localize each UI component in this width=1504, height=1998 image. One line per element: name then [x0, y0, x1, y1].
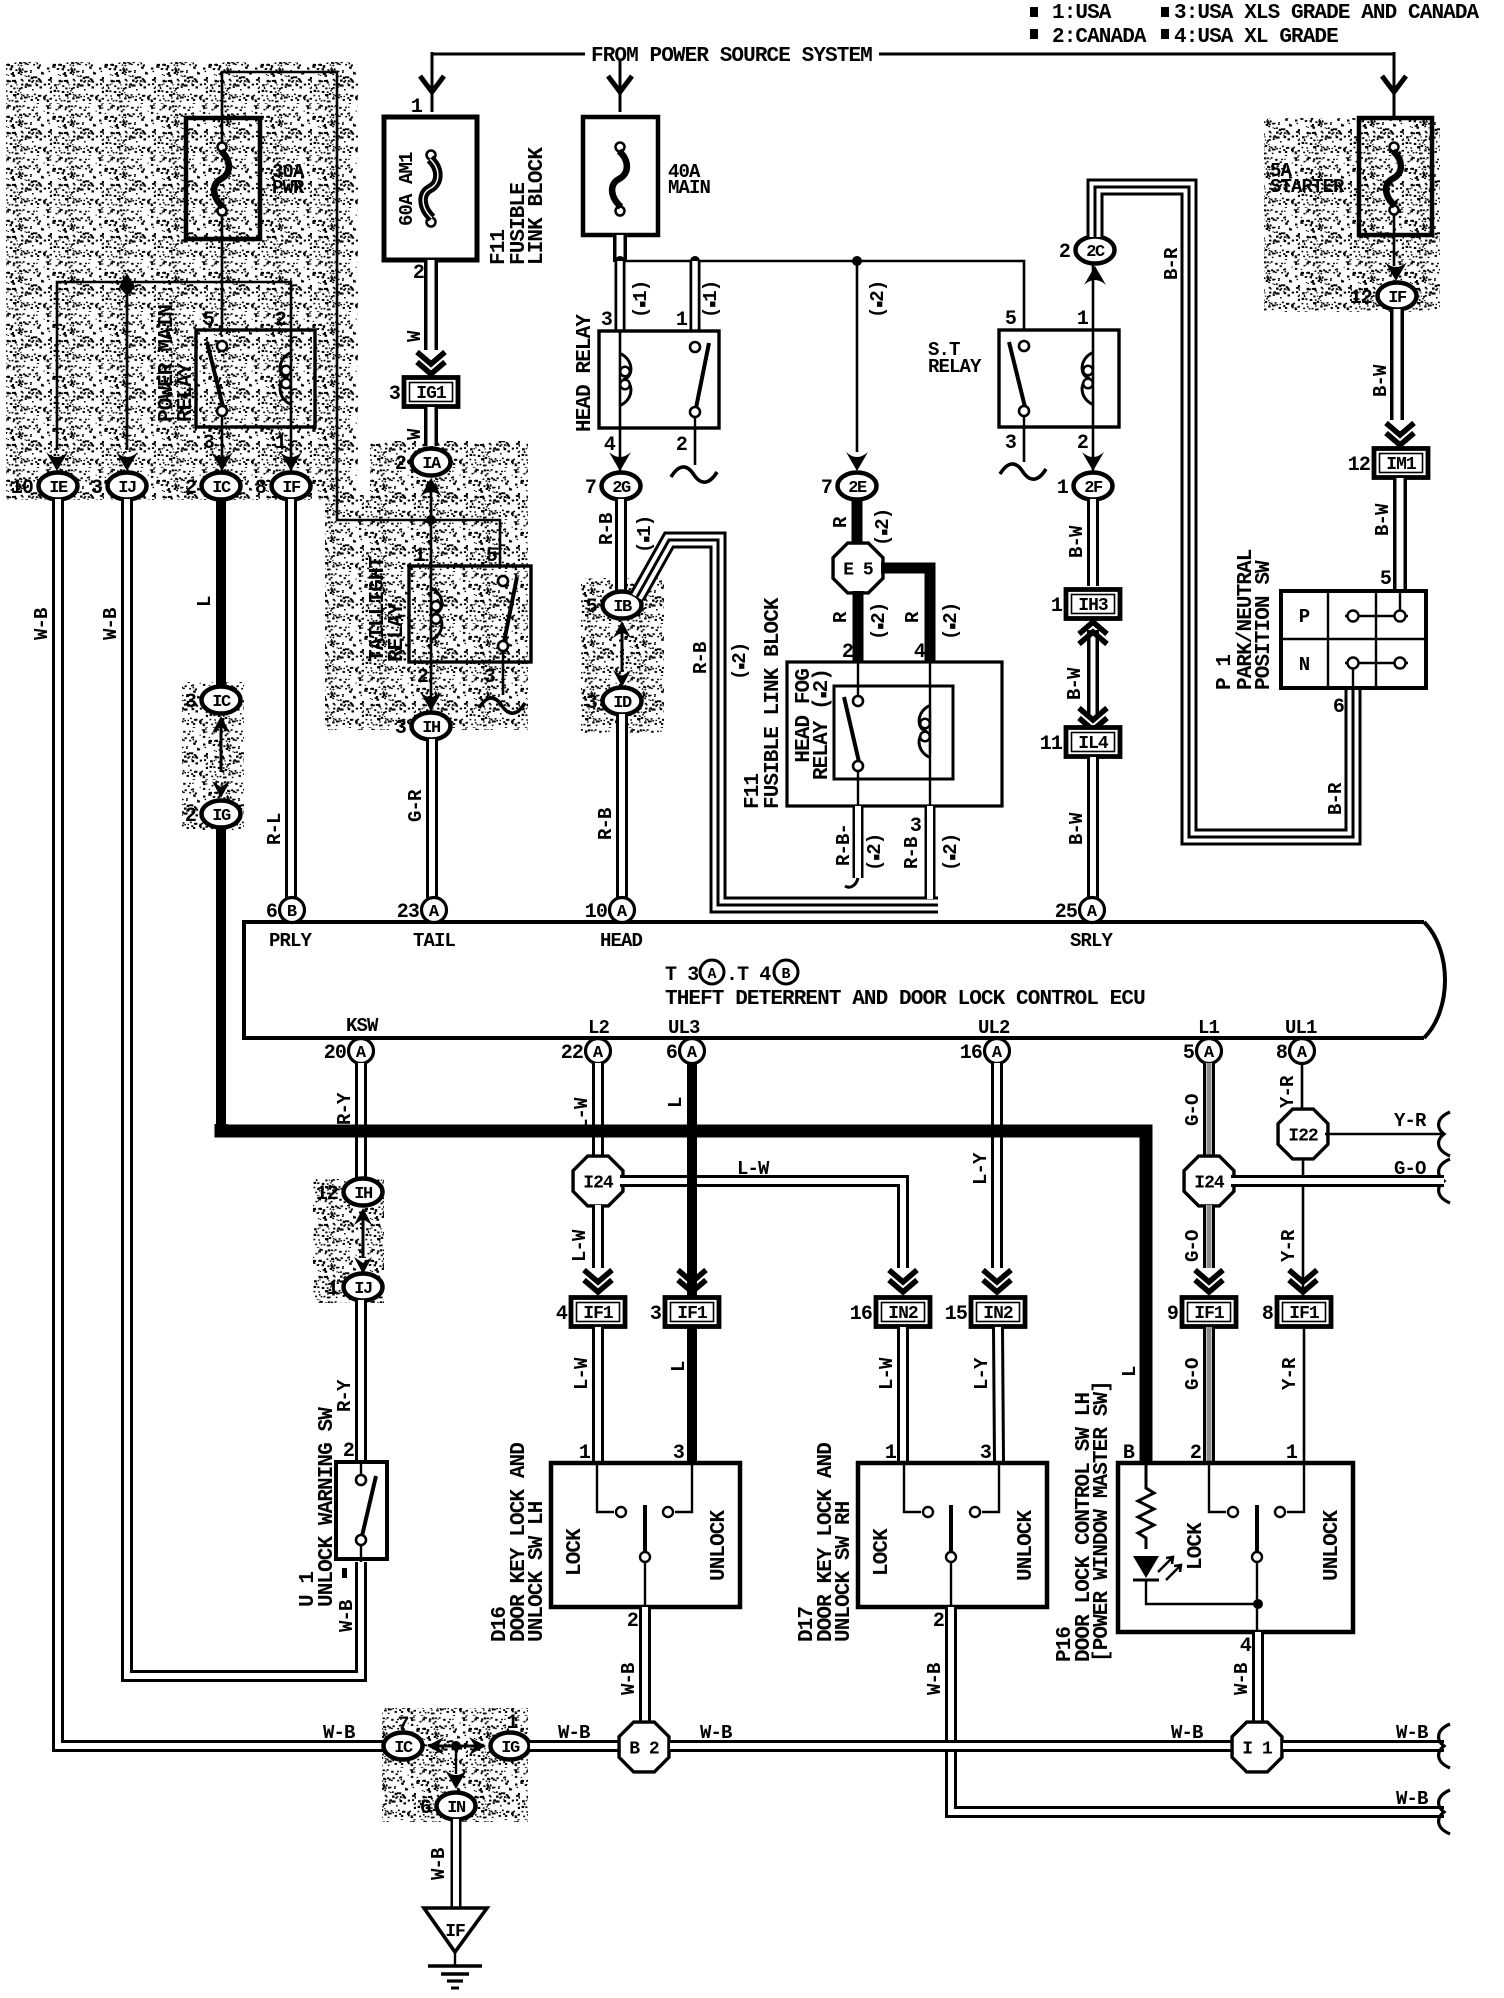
svg-text:PRLY: PRLY	[269, 930, 313, 952]
connector 11 IL4	[1066, 728, 1120, 757]
svg-text:IF1: IF1	[583, 1304, 614, 1324]
junction dots	[615, 256, 625, 266]
pair arrows IB-ID	[613, 621, 631, 638]
pair arrows IC-IG	[212, 716, 230, 733]
head relay coil	[619, 331, 622, 428]
svg-text:RELAY: RELAY	[175, 362, 198, 422]
svg-text:3: 3	[203, 432, 214, 455]
svg-text:Y-R: Y-R	[1278, 1229, 1300, 1262]
svg-text:1: 1	[1077, 308, 1089, 331]
head fog relay coil	[929, 663, 931, 709]
arrow into IH	[420, 692, 442, 711]
head relay switch	[690, 342, 700, 352]
svg-text:2: 2	[417, 666, 428, 689]
pin 25 A SRLY	[1080, 898, 1105, 923]
wire R E5 to head fog pin 4	[881, 568, 930, 663]
head fog relay inner box	[834, 686, 953, 779]
legend marker 3	[1161, 7, 1169, 17]
connector 7 IC ground pair	[384, 1733, 423, 1760]
shaded region connector IH-IJ pair	[313, 1179, 384, 1303]
wire G-O horizontal to right edge	[1231, 1175, 1444, 1187]
svg-text:B-W: B-W	[1066, 525, 1088, 558]
svg-text:16: 16	[850, 1303, 872, 1326]
svg-text:STARTER: STARTER	[1270, 176, 1345, 198]
arrow into 2F	[1082, 452, 1104, 471]
connector 7 2E	[838, 473, 877, 500]
svg-text:(■1): (■1)	[630, 281, 652, 318]
pin 8 A UL1	[1290, 1039, 1315, 1064]
svg-text:B: B	[781, 966, 790, 983]
ground IF triangle	[424, 1908, 487, 1952]
svg-text:1: 1	[1057, 477, 1069, 500]
svg-text:6: 6	[420, 1797, 431, 1820]
head fog relay F11 outer box	[787, 662, 1002, 806]
svg-text:SRLY: SRLY	[1070, 930, 1114, 952]
svg-text:IN2: IN2	[983, 1304, 1013, 1324]
wire L-W IF1 to D16 pin 1	[592, 1327, 604, 1463]
svg-text:2: 2	[1077, 432, 1088, 455]
wire G-O I24 to IF1	[1203, 1205, 1215, 1268]
wire L IC to IC3	[216, 499, 226, 688]
wire st pin 2 to 2F	[1092, 427, 1095, 472]
wire L-W IN2 to D17 pin 1	[897, 1327, 909, 1463]
svg-text:IG1: IG1	[416, 384, 447, 404]
arrow into 2G	[609, 452, 631, 471]
svg-text:5: 5	[203, 309, 214, 332]
wire B-W IM1 to P1 pin 5	[1393, 478, 1407, 592]
svg-text:IH: IH	[422, 719, 441, 738]
wire 30A PWR top loop to taillight relay	[222, 72, 500, 566]
svg-text:Y-R: Y-R	[1277, 1075, 1299, 1108]
svg-text:IC: IC	[212, 479, 231, 498]
P16 contacts	[1209, 1465, 1226, 1512]
svg-text:1:USA: 1:USA	[1052, 2, 1112, 25]
svg-text:.T 4: .T 4	[726, 964, 771, 987]
svg-text:W-B: W-B	[700, 1722, 732, 1744]
svg-text:LOCK: LOCK	[564, 1528, 587, 1576]
svg-text:22: 22	[561, 1042, 583, 1065]
svg-text:2: 2	[343, 1440, 354, 1463]
svg-text:3: 3	[910, 815, 921, 838]
power main relay switch	[217, 341, 227, 351]
svg-text:RELAY: RELAY	[928, 356, 982, 378]
switch U1 unlock warning sw	[336, 1462, 387, 1559]
switch P1 park/neutral position sw	[1281, 591, 1426, 688]
svg-text:L1: L1	[1198, 1017, 1220, 1039]
connector 2 IG	[202, 801, 241, 828]
arrow into IF	[1385, 262, 1407, 281]
wire Y-R horizontal to right edge	[1325, 1133, 1444, 1136]
svg-text:L-Y: L-Y	[971, 1357, 993, 1390]
svg-text:B-W: B-W	[1370, 364, 1392, 397]
svg-text:2E: 2E	[848, 479, 867, 498]
connector I 1	[1232, 1722, 1282, 1772]
shaded region ground connector pair	[382, 1708, 528, 1822]
svg-text:IN: IN	[447, 1799, 466, 1818]
wire W-B bus B2 to I1	[670, 1740, 1232, 1752]
svg-text:HEAD RELAY: HEAD RELAY	[574, 314, 597, 432]
connector 1 2F	[1074, 473, 1113, 500]
svg-text:2: 2	[627, 1610, 638, 1633]
pin 6 B PRLY	[280, 898, 305, 923]
svg-text:HEAD: HEAD	[600, 930, 643, 952]
svg-text:4: 4	[604, 434, 616, 457]
wire W-B IE to ground bus	[58, 499, 384, 1746]
svg-text:UNLOCK: UNLOCK	[708, 1509, 731, 1581]
svg-text:B 2: B 2	[629, 1740, 659, 1760]
svg-text:(■2): (■2)	[868, 603, 890, 640]
svg-text:(■1): (■1)	[700, 281, 722, 318]
legend marker 1	[1030, 7, 1038, 17]
D17 pole	[949, 1505, 953, 1552]
connector 16 IN2	[876, 1298, 930, 1327]
wire L IG down to corner	[216, 827, 226, 1131]
svg-text:B-W: B-W	[1064, 667, 1086, 700]
svg-text:1: 1	[327, 1278, 339, 1301]
svg-text:W: W	[404, 428, 426, 440]
svg-text:60A AM1: 60A AM1	[396, 152, 418, 226]
connector 12 IM1	[1374, 449, 1428, 478]
svg-text:IF1: IF1	[1194, 1304, 1225, 1324]
svg-text:G-O: G-O	[1182, 1230, 1204, 1262]
switch D17 door key lock and unlock sw RH	[858, 1463, 1047, 1607]
svg-text:A: A	[617, 903, 628, 922]
wire pin3 to IC	[221, 427, 224, 472]
wire W-B IN to ground	[451, 1819, 462, 1908]
svg-text:12: 12	[1350, 287, 1372, 310]
pin 10 A HEAD	[610, 898, 635, 923]
pair arrows IC-IG horizontal	[427, 1737, 444, 1755]
connector 3 IF1	[665, 1298, 719, 1327]
junction dot taillight feed	[426, 515, 436, 525]
bus wire to ST relay	[620, 261, 1024, 332]
wire Y-R UL1 to I22	[1301, 1063, 1304, 1110]
relay TAILLIGHT RELAY	[409, 566, 531, 662]
squiggle taillight pin 3	[479, 698, 525, 713]
wire feed to 60A AM1	[432, 53, 585, 56]
shaded region taillight relay area	[370, 441, 528, 501]
ground symbol	[454, 1952, 456, 1966]
svg-text:L: L	[1119, 1366, 1141, 1377]
double arrow IH3 to IL4	[1087, 630, 1099, 716]
P16 resistor	[1138, 1463, 1154, 1549]
svg-text:B-W: B-W	[1066, 812, 1088, 845]
svg-text:A: A	[593, 1044, 604, 1063]
pin 22 A L2	[586, 1039, 611, 1064]
svg-text:L2: L2	[588, 1017, 610, 1039]
shaded region 5A starter area	[1264, 118, 1440, 312]
arrow into IF1	[678, 1280, 706, 1292]
svg-text:A: A	[356, 1044, 367, 1063]
wire pin 4 to 2G	[619, 428, 622, 472]
fuse 30A PWR	[186, 118, 260, 239]
svg-text:ID: ID	[613, 694, 632, 713]
unlock warning switch blade	[360, 1463, 362, 1476]
svg-text:6: 6	[266, 901, 277, 924]
svg-text:2:CANADA: 2:CANADA	[1052, 26, 1147, 49]
svg-text:Y-R: Y-R	[1279, 1357, 1301, 1390]
svg-text:5: 5	[1005, 308, 1016, 331]
wire bus to head relay pin 1	[690, 261, 701, 332]
wire R 2E to E5	[852, 499, 863, 545]
svg-text:UNLOCK SW RH: UNLOCK SW RH	[833, 1501, 856, 1642]
svg-text:2C: 2C	[1086, 243, 1105, 262]
svg-text:6: 6	[1333, 696, 1344, 719]
connector 2 IA	[412, 449, 451, 476]
svg-text:5: 5	[1380, 568, 1391, 591]
svg-text:POSITION SW: POSITION SW	[1253, 560, 1276, 690]
svg-text:I24: I24	[1194, 1174, 1225, 1194]
svg-text:IA: IA	[422, 455, 442, 474]
connector 5 IB	[603, 592, 642, 619]
svg-text:2: 2	[185, 477, 196, 500]
wire R-Y IJ to unlock warning sw	[355, 1300, 367, 1463]
svg-text:B: B	[287, 903, 297, 922]
svg-text:8: 8	[1276, 1042, 1287, 1065]
wire L-Y IN2 to D17 pin 3	[998, 1327, 999, 1463]
pin 20 A KSW	[349, 1039, 374, 1064]
svg-text:7: 7	[585, 477, 596, 500]
fuse 5A STARTER	[1359, 118, 1432, 235]
svg-text:P: P	[1299, 606, 1310, 628]
svg-text:B-W: B-W	[1372, 503, 1394, 536]
fuse 40A MAIN	[583, 117, 658, 235]
connector 1 IG ground pair	[491, 1733, 530, 1760]
shaded region connector IC-IG pair	[182, 682, 244, 830]
svg-text:IN2: IN2	[888, 1304, 918, 1324]
svg-text:12: 12	[316, 1183, 338, 1206]
svg-text:2: 2	[676, 434, 687, 457]
head fog relay switch	[857, 663, 859, 697]
svg-text:Y-R: Y-R	[1394, 1110, 1427, 1132]
svg-text:R-B: R-B	[690, 642, 712, 674]
svg-text:W-B: W-B	[323, 1722, 355, 1744]
svg-text:UL1: UL1	[1285, 1017, 1317, 1039]
svg-text:L-W: L-W	[737, 1158, 770, 1180]
wire G-O horizontal crossing over Y-R	[1231, 1175, 1444, 1187]
wire IA to taillight relay pin 1	[430, 486, 433, 566]
svg-text:R-B-: R-B-	[833, 824, 855, 866]
svg-text:PWR: PWR	[272, 177, 305, 199]
svg-text:IG: IG	[501, 1739, 520, 1758]
wire L UL3 to IF1	[687, 1063, 697, 1297]
taillight relay coil	[430, 566, 433, 662]
wire fuse to power main relay pin 5	[221, 216, 224, 332]
arrow into IM1	[1386, 433, 1414, 445]
svg-text:L: L	[194, 596, 216, 607]
connector 3 IH	[412, 713, 451, 740]
svg-text:P 1: P 1	[1214, 655, 1237, 690]
wire W-B P16 pin 4 to I1	[1252, 1632, 1264, 1723]
svg-text:3: 3	[601, 309, 612, 332]
svg-text:UNLOCK SW LH: UNLOCK SW LH	[526, 1501, 549, 1642]
svg-text:1: 1	[411, 96, 423, 119]
svg-text:3: 3	[91, 477, 102, 500]
connector 7 2G	[602, 473, 641, 500]
svg-text:1: 1	[414, 545, 426, 568]
connector 1 IH3	[1066, 590, 1120, 619]
wire Y-R IF1 to P16 pin 1	[1303, 1327, 1306, 1463]
wire MAIN to bus	[613, 235, 627, 262]
svg-text:MAIN: MAIN	[668, 177, 711, 199]
arrow into IJ	[116, 452, 138, 471]
svg-text:25: 25	[1055, 901, 1077, 924]
wire G-R IH to ECU TAIL	[426, 739, 438, 898]
svg-text:UL2: UL2	[978, 1017, 1010, 1039]
svg-text:11: 11	[1040, 733, 1063, 756]
svg-text:(■2): (■2)	[940, 603, 962, 640]
arrow into IN2	[889, 1280, 917, 1292]
connector 12 IH	[344, 1179, 383, 1206]
svg-text:2: 2	[933, 1610, 944, 1633]
wire bus to head relay pin 3	[615, 261, 626, 332]
wire Y-R I22 to IF1	[1302, 1158, 1305, 1297]
relay POWER MAIN RELAY	[196, 330, 315, 427]
svg-text:L-W: L-W	[876, 1357, 898, 1390]
wire L-W I24 to IF1	[592, 1205, 604, 1268]
svg-text:10: 10	[585, 901, 607, 924]
connector 6 IN	[437, 1793, 476, 1820]
svg-text:IC: IC	[394, 1739, 413, 1758]
continuation curly G-O	[1439, 1159, 1450, 1203]
wire pin 2 to IH	[430, 662, 433, 712]
svg-text:1: 1	[1051, 595, 1063, 618]
svg-text:[POWER WINDOW MASTER SW]: [POWER WINDOW MASTER SW]	[1091, 1381, 1114, 1662]
wire L IF1 to D16 pin 3	[687, 1327, 697, 1463]
arrow into IC	[211, 452, 233, 471]
svg-text:7: 7	[397, 1714, 408, 1737]
wire G-O L1 to I24	[1203, 1063, 1215, 1157]
svg-text:A: A	[992, 1044, 1003, 1063]
N contact	[1352, 664, 1354, 688]
svg-text:23: 23	[397, 901, 419, 924]
svg-text:2: 2	[185, 805, 196, 828]
svg-text:2: 2	[395, 453, 406, 476]
connector E 5	[833, 543, 883, 593]
arrow into IG1	[417, 362, 445, 374]
svg-text:IJ: IJ	[118, 479, 136, 498]
connector 3 IG1	[404, 378, 458, 407]
svg-text:IM1: IM1	[1386, 455, 1417, 475]
arrow into IF1	[584, 1280, 612, 1292]
svg-text:THEFT DETERRENT AND DOOR LOCK: THEFT DETERRENT AND DOOR LOCK CONTROL EC…	[665, 988, 1145, 1011]
svg-text:R-B: R-B	[596, 513, 618, 545]
wire B-W IL4 to ECU SRLY	[1087, 757, 1099, 898]
wire B-R bundle 2C to P1 pin 6	[1095, 187, 1353, 837]
svg-text:(■1): (■1)	[634, 516, 656, 553]
connector 2 2C	[1076, 237, 1115, 264]
wire W-B D17 pin 2 to lower bus	[951, 1607, 1444, 1812]
svg-text:W-B: W-B	[1171, 1722, 1203, 1744]
switch P16 door lock control sw LH power window master sw	[1118, 1463, 1353, 1632]
svg-text:UNLOCK: UNLOCK	[1015, 1509, 1038, 1581]
connector B 2	[619, 1722, 669, 1772]
svg-text:3: 3	[185, 691, 196, 714]
fuse 60A AM1 F11 fusible link block	[384, 117, 477, 260]
taillight relay switch	[498, 576, 508, 586]
arrow into IF	[280, 452, 302, 471]
continuation curly Y-R	[1439, 1112, 1450, 1156]
svg-text:(■2): (■2)	[872, 509, 894, 546]
svg-text:4:USA XL GRADE: 4:USA XL GRADE	[1174, 26, 1338, 49]
switch D16 door key lock and unlock sw LH	[551, 1463, 740, 1607]
svg-text:R-L: R-L	[264, 813, 286, 845]
wire branch to IJ	[126, 282, 129, 450]
connector 1 IJ	[344, 1274, 383, 1301]
connector 2 IC	[202, 473, 241, 500]
svg-text:3: 3	[484, 666, 495, 689]
svg-text:3:USA XLS GRADE AND CANADA: 3:USA XLS GRADE AND CANADA	[1174, 2, 1480, 25]
svg-text:L-W: L-W	[571, 1357, 593, 1390]
wire W-B D16 pin 2 to B2	[639, 1607, 651, 1722]
connector 3 IJ	[108, 473, 147, 500]
svg-text:W-B: W-B	[100, 608, 122, 640]
svg-text:L-Y: L-Y	[970, 1152, 992, 1185]
wire bus to 2E	[856, 261, 859, 452]
wire relay feed to IE IJ	[57, 282, 291, 450]
P16 pole	[1255, 1505, 1259, 1552]
st relay switch	[1019, 341, 1029, 351]
svg-text:L-W: L-W	[569, 1229, 591, 1262]
svg-text:R-B: R-B	[901, 837, 923, 869]
connector 4 IF1	[571, 1298, 625, 1327]
wire R-B bundle IB to head fog relay	[637, 540, 938, 905]
svg-text:RELAY: RELAY	[386, 602, 409, 662]
svg-text:TAIL: TAIL	[413, 930, 456, 952]
arrow into 2C from below	[1084, 266, 1106, 285]
power main relay coil	[290, 330, 293, 427]
svg-text:R-Y: R-Y	[334, 1092, 356, 1125]
svg-text:20: 20	[324, 1042, 346, 1065]
svg-text:IH3: IH3	[1078, 596, 1108, 616]
svg-text:2: 2	[275, 309, 286, 332]
svg-text:9: 9	[1167, 1303, 1178, 1326]
arrow into IN	[455, 1746, 457, 1774]
connector I22	[1278, 1109, 1328, 1159]
svg-text:IF: IF	[445, 1922, 465, 1942]
svg-text:IF: IF	[1388, 289, 1407, 308]
svg-text:7: 7	[821, 477, 832, 500]
wire st pin 3 unused	[1023, 427, 1026, 462]
svg-text:2G: 2G	[612, 479, 631, 498]
svg-text:IJ: IJ	[354, 1280, 372, 1299]
connector 8 IF	[272, 473, 311, 500]
svg-text:R: R	[830, 611, 852, 623]
svg-text:(■2): (■2)	[864, 834, 886, 871]
svg-text:2: 2	[1059, 241, 1070, 264]
wire starter fuse to IF	[1393, 215, 1396, 266]
svg-text:IB: IB	[613, 598, 632, 617]
svg-text:5: 5	[1183, 1042, 1194, 1065]
svg-text:FUSIBLE LINK BLOCK: FUSIBLE LINK BLOCK	[762, 597, 785, 809]
svg-text:W-B: W-B	[618, 1663, 640, 1695]
svg-text:(■2): (■2)	[867, 281, 889, 318]
svg-text:UL3: UL3	[668, 1017, 700, 1039]
svg-text:IF: IF	[282, 479, 301, 498]
svg-text:LOCK: LOCK	[1185, 1522, 1208, 1570]
svg-text:IF1: IF1	[1289, 1304, 1320, 1324]
wire W-B bus IG to B2	[530, 1740, 618, 1752]
svg-text:I22: I22	[1288, 1127, 1318, 1147]
svg-text:8: 8	[1262, 1303, 1273, 1326]
svg-text:G-O: G-O	[1182, 1358, 1204, 1390]
svg-text:R: R	[830, 516, 852, 528]
svg-text:IL4: IL4	[1078, 734, 1109, 754]
wire W-B bus I1 to right edge	[1283, 1740, 1444, 1752]
svg-text:A: A	[707, 966, 716, 983]
svg-text:5: 5	[486, 545, 497, 568]
wire R-L IF to ECU PRLY	[285, 499, 297, 898]
